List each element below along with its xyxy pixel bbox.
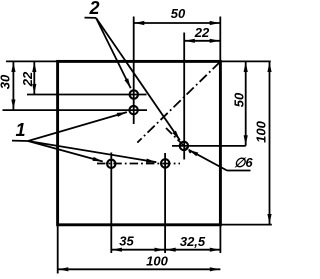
svg-text:50: 50 bbox=[171, 6, 186, 21]
svg-text:2: 2 bbox=[88, 0, 99, 18]
svg-text:22: 22 bbox=[20, 71, 35, 87]
svg-text:30: 30 bbox=[0, 74, 13, 89]
svg-text:100: 100 bbox=[254, 120, 269, 142]
svg-text:1: 1 bbox=[15, 120, 25, 140]
svg-text:100: 100 bbox=[146, 254, 168, 269]
svg-text:50: 50 bbox=[232, 92, 247, 107]
svg-text:∅6: ∅6 bbox=[234, 155, 253, 170]
svg-text:22: 22 bbox=[194, 25, 210, 40]
svg-text:35: 35 bbox=[119, 234, 134, 249]
svg-text:32,5: 32,5 bbox=[180, 234, 206, 249]
